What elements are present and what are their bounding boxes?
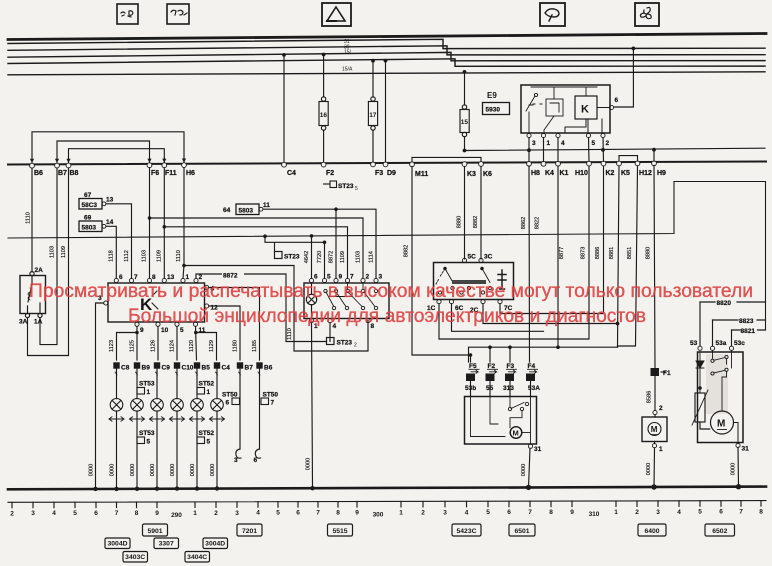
connector ST52/5	[197, 430, 214, 446]
svg-text:2: 2	[199, 274, 203, 281]
svg-text:Просматривать и распечатывать: Просматривать и распечатывать в высоком …	[29, 281, 753, 302]
ref box 5515	[328, 524, 353, 536]
wire F3 vertical upper	[372, 61, 374, 97]
svg-text:7: 7	[739, 509, 743, 516]
svg-text:M11: M11	[415, 171, 428, 178]
svg-text:C8: C8	[121, 365, 130, 372]
wire 1110 H6 down with branch to flasher pin8 net	[183, 168, 368, 351]
svg-text:9: 9	[355, 510, 359, 517]
hazard switch unit box	[304, 283, 389, 319]
svg-text:16: 16	[320, 112, 328, 119]
node E9.3	[527, 148, 531, 152]
svg-text:0000: 0000	[306, 458, 312, 470]
svg-text:300: 300	[373, 512, 384, 519]
svg-text:3: 3	[234, 457, 238, 464]
svg-text:6: 6	[314, 274, 318, 281]
wire D9 vertical	[385, 61, 387, 164]
ref box 6501	[509, 524, 535, 536]
pin labels	[314, 274, 383, 331]
bracket B8-F11	[69, 149, 165, 164]
svg-text:M: M	[717, 419, 725, 430]
svg-text:C4: C4	[287, 170, 296, 177]
svg-text:17: 17	[369, 112, 377, 119]
fuse F4	[526, 363, 540, 392]
node fuse15/bus	[463, 70, 467, 74]
svg-text:B6: B6	[264, 365, 273, 372]
svg-text:5: 5	[207, 439, 211, 446]
internals: diode	[696, 352, 704, 392]
ground junction dots	[93, 484, 741, 491]
svg-text:1: 1	[614, 509, 618, 516]
svg-text:8821: 8821	[741, 328, 756, 335]
svg-text:B5: B5	[202, 365, 211, 372]
ref box 6400	[638, 524, 666, 536]
small arrows under squares	[115, 372, 260, 375]
svg-text:0000: 0000	[521, 464, 527, 476]
fuse 15	[460, 105, 469, 151]
ref box 3004D (2)	[203, 538, 228, 549]
svg-text:ST52: ST52	[199, 381, 215, 388]
ruler numbers	[10, 509, 763, 519]
svg-text:7720: 7720	[317, 251, 323, 263]
wiper pin 31	[528, 444, 532, 448]
svg-text:313: 313	[503, 385, 514, 392]
svg-text:0000: 0000	[210, 464, 216, 476]
svg-text:8: 8	[336, 510, 340, 517]
svg-text:1: 1	[399, 509, 403, 516]
svg-text:3A: 3A	[19, 319, 28, 326]
ignition pin nets to right verticals	[439, 166, 638, 347]
svg-text:6400: 6400	[644, 528, 659, 535]
svg-text:B7: B7	[58, 170, 67, 177]
label 8872 horizontal	[222, 271, 244, 280]
svg-text:58C3: 58C3	[82, 202, 98, 209]
svg-text:B7: B7	[245, 365, 254, 372]
svg-text:4642: 4642	[304, 251, 310, 263]
svg-text:7: 7	[316, 510, 320, 517]
svg-text:53a: 53a	[716, 340, 727, 347]
E9 pin wires to rail	[529, 138, 604, 162]
svg-text:8881: 8881	[609, 247, 615, 259]
svg-text:8822: 8822	[535, 217, 541, 229]
svg-text:F2: F2	[326, 170, 334, 177]
node 7720	[323, 241, 327, 245]
ignition bottom pins	[437, 300, 502, 304]
node C4/bus	[282, 53, 286, 57]
pin1 wire to ground	[312, 323, 313, 488]
lamp L6	[211, 399, 224, 412]
node D9/bus	[384, 59, 388, 63]
main connector rail	[8, 162, 766, 165]
wire fuse15 from bus 15A	[464, 72, 466, 105]
svg-text:1120: 1120	[189, 340, 195, 352]
svg-text:1109: 1109	[340, 251, 346, 263]
connector labels C8 B9 C9 C10 B5 C4 B7 B6	[121, 365, 273, 372]
terminal circles on rail	[30, 161, 657, 168]
svg-text:3307: 3307	[159, 541, 174, 548]
node 2C/8881	[616, 322, 620, 326]
svg-text:C10: C10	[182, 365, 194, 372]
connector ST23/5 at F2 wire	[324, 181, 358, 192]
E9 internals	[526, 87, 614, 133]
motor M	[711, 411, 739, 444]
washer pump 6400	[642, 405, 667, 488]
connector 69/5803/14	[79, 215, 116, 279]
svg-text:M: M	[651, 425, 658, 434]
pin4 wire to ST23/2	[329, 323, 331, 342]
fuse F3	[503, 363, 517, 392]
svg-text:53c: 53c	[734, 340, 745, 347]
svg-text:ST23: ST23	[284, 254, 300, 261]
bus y150 linking fuse15, E9.3, E9.2, H9	[465, 148, 766, 161]
svg-text:3004D: 3004D	[205, 541, 225, 548]
svg-text:1110: 1110	[176, 250, 182, 262]
ref box 5901	[143, 524, 168, 536]
switch contacts inside	[324, 283, 378, 310]
connector ST52/1	[197, 381, 214, 397]
svg-text:3404C: 3404C	[187, 554, 207, 561]
svg-text:0000: 0000	[150, 464, 156, 476]
ref box 3004D	[105, 538, 130, 549]
svg-text:K: K	[581, 104, 589, 116]
svg-text:8823: 8823	[739, 318, 754, 325]
svg-text:Большой энциклопедии для автоэ: Большой энциклопедии для автоэлектриков …	[128, 305, 646, 327]
svg-text:6: 6	[296, 510, 300, 517]
svg-text:6: 6	[615, 97, 619, 104]
switch unit 2A/3A/1A	[20, 272, 46, 318]
svg-text:13: 13	[167, 274, 175, 281]
pigtail hook 6	[254, 449, 261, 464]
wire 8823	[713, 318, 766, 346]
svg-text:K1: K1	[560, 170, 569, 177]
svg-text:6: 6	[94, 510, 98, 517]
svg-text:8882: 8882	[404, 245, 410, 257]
svg-text:4: 4	[677, 509, 681, 516]
node F2/bus	[322, 53, 326, 57]
svg-text:4: 4	[52, 510, 56, 517]
svg-text:1185: 1185	[252, 340, 258, 352]
svg-text:3: 3	[443, 509, 447, 516]
svg-text:5803: 5803	[82, 224, 97, 231]
svg-text:K5: K5	[621, 170, 630, 177]
svg-text:ST53: ST53	[139, 430, 155, 437]
svg-text:53A: 53A	[528, 385, 540, 392]
svg-text:6: 6	[719, 509, 723, 516]
wire F2 vertical upper	[323, 55, 325, 98]
node K3/fuse15	[463, 149, 467, 153]
svg-text:3: 3	[235, 510, 239, 517]
connector ST23/2	[327, 338, 358, 349]
connector ST53/5	[137, 430, 155, 446]
svg-text:10: 10	[161, 327, 169, 334]
svg-text:1124: 1124	[169, 340, 175, 352]
svg-text:2: 2	[421, 509, 425, 516]
svg-text:7: 7	[115, 510, 119, 517]
ruler line	[8, 501, 766, 503]
svg-text:6: 6	[254, 457, 258, 464]
svg-text:2: 2	[354, 343, 357, 349]
svg-text:8: 8	[759, 509, 763, 516]
svg-text:5515: 5515	[332, 528, 347, 535]
icon box 1 (indicator symbol)	[117, 4, 138, 24]
svg-text:5901: 5901	[147, 528, 162, 535]
svg-text:3: 3	[656, 509, 660, 516]
svg-text:9: 9	[140, 327, 144, 334]
svg-text:8880: 8880	[457, 216, 463, 228]
svg-text:1: 1	[547, 140, 551, 147]
svg-text:2: 2	[214, 510, 218, 517]
wire 1109 B8 down to 3A	[28, 168, 69, 356]
connector 64/5803/11	[223, 202, 376, 278]
svg-text:5: 5	[327, 274, 331, 281]
svg-text:8882: 8882	[473, 216, 479, 228]
wire 1110 B6 to 2A	[31, 168, 33, 272]
icon box 4 (wiper symbol)	[540, 3, 565, 26]
junction dots on bus	[282, 47, 635, 74]
svg-text:F6: F6	[151, 170, 159, 177]
svg-text:C4: C4	[222, 365, 231, 372]
unit box 6502	[698, 352, 744, 443]
node inside	[698, 386, 702, 390]
svg-text:2A: 2A	[35, 267, 44, 274]
fuse feed line y347	[469, 347, 618, 362]
svg-text:B6: B6	[34, 170, 43, 177]
svg-text:9: 9	[570, 509, 574, 516]
svg-text:8: 8	[549, 509, 553, 516]
K pin3 wire to ground	[96, 303, 104, 488]
svg-text:0000: 0000	[170, 464, 176, 476]
pin 31	[736, 443, 740, 447]
connector ST50/7	[261, 392, 278, 407]
svg-text:8873: 8873	[581, 247, 587, 259]
svg-text:9: 9	[339, 274, 343, 281]
fuse F1	[651, 368, 671, 377]
svg-text:290: 290	[171, 512, 182, 519]
ground wire labels 0000 left group	[89, 458, 312, 476]
svg-text:5: 5	[698, 509, 702, 516]
warning lamp symbol	[306, 283, 316, 319]
svg-text:8877: 8877	[559, 247, 565, 259]
node H6 branch	[182, 264, 186, 268]
svg-text:6: 6	[507, 509, 511, 516]
svg-text:5930: 5930	[486, 107, 501, 114]
node E9.2	[601, 148, 605, 152]
svg-text:3: 3	[31, 510, 35, 517]
svg-text:11: 11	[263, 202, 270, 209]
K bottom pin wires with branches	[117, 326, 217, 360]
switch contacts	[711, 350, 732, 410]
svg-text:8872: 8872	[329, 251, 335, 263]
svg-text:K3: K3	[467, 171, 476, 178]
wire 8820	[700, 300, 766, 346]
svg-text:3403C: 3403C	[125, 554, 145, 561]
svg-text:1103: 1103	[356, 251, 362, 263]
connector ST50/6	[222, 392, 240, 407]
svg-text:5: 5	[486, 509, 490, 516]
svg-text:7: 7	[350, 274, 354, 281]
K unit pin labels	[98, 274, 218, 334]
wire 1103 B7 down to 1A	[40, 168, 57, 345]
node F6 branch	[148, 216, 152, 220]
svg-text:ST23: ST23	[338, 183, 354, 190]
wire 8821	[732, 328, 766, 346]
node E9-6/bus	[632, 47, 636, 51]
svg-text:31: 31	[534, 446, 542, 453]
thermistor resistor	[692, 390, 710, 429]
relay unit K (turn signal relay)	[108, 283, 205, 322]
svg-text:7201: 7201	[242, 528, 257, 535]
wiper unit box	[465, 397, 537, 445]
inline connector squares row	[113, 362, 262, 368]
svg-text:5: 5	[355, 186, 358, 192]
wire E9 pin6 to bus	[614, 48, 633, 107]
terminal labels	[34, 170, 666, 178]
svg-text:64: 64	[223, 207, 231, 214]
svg-text:53: 53	[690, 340, 698, 347]
lamp L3	[151, 399, 164, 412]
long line to washer unit (y236) with step up at 674	[8, 182, 766, 331]
wire 4642	[311, 236, 313, 278]
svg-text:K2: K2	[606, 170, 615, 177]
ruler ticks	[12, 501, 761, 508]
svg-text:5C: 5C	[468, 254, 477, 261]
svg-text:8: 8	[152, 274, 156, 281]
bracket K5-H12	[619, 156, 638, 162]
wire 1103 branch F6 to flasher pin2	[150, 168, 364, 278]
svg-text:13: 13	[106, 197, 114, 204]
svg-text:0000: 0000	[190, 464, 196, 476]
svg-text:31: 31	[742, 446, 750, 453]
svg-text:H6: H6	[186, 170, 195, 177]
node pin9 branch	[135, 331, 139, 335]
bus line 4 with step	[8, 52, 765, 60]
svg-text:7: 7	[528, 509, 532, 516]
svg-text:1103: 1103	[142, 250, 148, 262]
connector ST23	[275, 252, 300, 261]
direction arrows under lamps	[109, 417, 225, 421]
lamp L5	[191, 399, 204, 412]
bracket B6-H6	[32, 132, 184, 164]
svg-text:0000: 0000	[731, 463, 737, 475]
svg-text:9: 9	[155, 510, 159, 517]
svg-text:1125: 1125	[129, 340, 135, 352]
terminals 53 53a 53c	[690, 340, 745, 347]
svg-text:2: 2	[635, 509, 639, 516]
svg-text:6501: 6501	[514, 528, 529, 535]
svg-text:8586: 8586	[647, 391, 653, 403]
stubs from fuses into box	[471, 381, 531, 397]
fuse 16	[319, 97, 328, 164]
svg-text:E9: E9	[487, 91, 497, 100]
svg-text:K4: K4	[545, 170, 554, 177]
E9 bottom pins	[527, 133, 605, 137]
node pin11 branch	[194, 331, 198, 335]
svg-text:15/: 15/	[344, 50, 352, 56]
svg-text:3C: 3C	[484, 254, 493, 261]
icon box 2 (indicator symbol)	[167, 4, 189, 24]
svg-text:3: 3	[532, 140, 536, 147]
svg-text:1114: 1114	[369, 251, 375, 263]
top pins 5C 3C	[462, 258, 483, 262]
svg-text:D9: D9	[387, 170, 396, 177]
H12 via 8851 to joint	[618, 166, 638, 346]
svg-text:3: 3	[379, 274, 383, 281]
E9 pin labels 3 1 4 5 2	[532, 140, 610, 147]
svg-text:2: 2	[606, 140, 610, 147]
svg-text:6502: 6502	[712, 528, 727, 535]
8862 from H8 to F4	[528, 166, 531, 362]
svg-text:4: 4	[256, 510, 260, 517]
ref box 7201	[237, 524, 262, 536]
svg-text:15: 15	[461, 119, 469, 126]
svg-text:4: 4	[561, 140, 565, 147]
ref box 5423C	[452, 524, 481, 536]
wire 8882 K6 to ignition 3C	[480, 166, 482, 259]
svg-text:1109: 1109	[156, 250, 162, 262]
svg-text:F11: F11	[165, 170, 177, 177]
svg-text:8: 8	[135, 510, 139, 517]
terminal arrowheads	[30, 159, 34, 163]
ref box 3403C	[123, 552, 148, 563]
node F3/bus	[371, 59, 375, 63]
svg-text:F3: F3	[375, 170, 383, 177]
svg-text:H9: H9	[657, 170, 666, 177]
K unit top pins	[104, 278, 209, 326]
svg-text:8880: 8880	[646, 247, 652, 259]
lamp L2	[131, 399, 144, 412]
svg-text:5: 5	[592, 140, 596, 147]
svg-text:0000: 0000	[89, 464, 95, 476]
M11 wire 8882 down to F5	[412, 167, 471, 362]
svg-text:K6: K6	[483, 171, 492, 178]
wire 8586	[654, 376, 656, 410]
lamp wires through to ground	[117, 369, 260, 488]
node on long line	[263, 234, 267, 238]
svg-text:1: 1	[659, 446, 663, 453]
fuse 17	[368, 97, 377, 164]
wire 8880 K3 to ignition 5C	[464, 167, 466, 260]
wire 8872 / 1114 feed line	[263, 209, 376, 278]
pigtail hook 3	[234, 449, 241, 464]
svg-text:1123: 1123	[109, 340, 115, 352]
svg-text:1: 1	[147, 389, 151, 396]
2C to 8881 joint	[483, 304, 618, 324]
svg-text:1110: 1110	[287, 328, 293, 340]
bus line 15A	[8, 72, 765, 75]
connector 67/5803/13	[79, 192, 132, 278]
svg-text:1103: 1103	[50, 246, 56, 258]
bus line 5 with step	[8, 59, 765, 67]
svg-text:1126: 1126	[150, 340, 156, 352]
svg-text:1109: 1109	[61, 246, 67, 258]
icon box 3 (hazard warning triangle)	[322, 3, 351, 26]
svg-text:5: 5	[180, 327, 184, 334]
node 4642 on long line	[310, 234, 314, 238]
svg-text:5: 5	[276, 510, 280, 517]
svg-text:6: 6	[119, 274, 123, 281]
7C to 8886/K2	[500, 166, 604, 313]
K pin2 wire 8872 to flasher area	[196, 274, 327, 342]
svg-text:2: 2	[366, 274, 370, 281]
svg-text:2: 2	[10, 510, 14, 517]
bracket M11-K6	[412, 157, 481, 162]
svg-text:F1: F1	[663, 370, 671, 377]
fuse F2	[486, 363, 498, 392]
E9 relay unit	[483, 85, 611, 133]
ignition internals	[436, 267, 506, 294]
ref box 6502	[705, 524, 735, 536]
ref box 3404C	[185, 552, 210, 563]
